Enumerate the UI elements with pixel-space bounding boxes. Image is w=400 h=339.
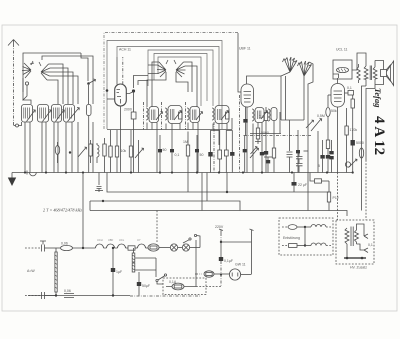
svg-text:2000: 2000 — [124, 108, 132, 112]
bus wire — [12, 172, 353, 174]
stage partition dash — [239, 95, 241, 173]
resistor R4 — [109, 130, 112, 173]
tone arrow P5 — [349, 159, 358, 168]
dash drop to HV box — [337, 173, 339, 221]
svg-text:4 A 12: 4 A 12 — [371, 116, 387, 155]
svg-text:UBF: UBF — [108, 238, 114, 242]
resistor R2 — [89, 140, 92, 163]
svg-text:50: 50 — [200, 153, 204, 157]
junction — [82, 247, 84, 249]
filter row 2 — [282, 243, 331, 247]
svg-text:5000: 5000 — [356, 141, 364, 145]
wire coil to gnd post — [23, 85, 31, 104]
AGC dash line — [244, 135, 312, 137]
drop x227 — [226, 173, 228, 194]
resistor R1 — [55, 142, 59, 163]
cap C20 — [296, 130, 300, 173]
drop from bus x83 — [82, 173, 84, 249]
drops from tuned row to bus — [25, 122, 93, 173]
grid stopper R13 — [326, 95, 337, 173]
screen box B3 — [333, 60, 352, 79]
cap C25 50uF — [137, 272, 150, 296]
mains prong 1 — [215, 225, 224, 233]
tuned circuit T1 — [22, 105, 36, 123]
vertical x113 — [111, 248, 122, 296]
svg-text:220V: 220V — [215, 225, 224, 229]
resistor R20 0,06 — [56, 242, 96, 251]
grid coupling cap — [318, 140, 325, 173]
dashed box Netz — [336, 220, 374, 264]
plate choke R16 — [357, 64, 360, 83]
AGC tap arrow with dot — [87, 79, 95, 104]
bottom bar — [344, 257, 366, 260]
svg-text:0,1: 0,1 — [347, 86, 352, 90]
IF3 drops — [188, 123, 198, 173]
resistor R18 P12 — [327, 181, 338, 211]
svg-text:5: 5 — [318, 164, 320, 168]
pot drop wire — [317, 131, 319, 173]
tube UBF11 V2 — [238, 33, 281, 173]
IF transformer IF4 — [212, 106, 229, 124]
svg-text:Entstörung: Entstörung — [283, 236, 300, 240]
svg-text:5000: 5000 — [261, 131, 269, 135]
diode load cap — [243, 107, 247, 136]
cap C26 — [25, 292, 56, 299]
output transformer TR1 — [364, 61, 377, 87]
svg-text:Tefag: Tefag — [373, 88, 383, 108]
mains plug GW — [229, 263, 251, 281]
box ACH11 outer — [107, 41, 222, 130]
transformer TR2 — [345, 224, 364, 258]
resistor R7 — [183, 132, 190, 173]
dash vertical from y210 — [156, 211, 158, 244]
svg-text:GW 11: GW 11 — [235, 263, 246, 267]
svg-text:50µF: 50µF — [142, 284, 150, 288]
antenna A1 — [8, 40, 19, 126]
band switch fan S1b — [39, 62, 51, 80]
fan aux wire — [285, 76, 287, 120]
bottom rail — [28, 295, 130, 297]
cap C22 — [329, 140, 333, 173]
box ACH11 inner — [117, 47, 219, 106]
pot circle — [345, 162, 350, 167]
grid cap dot — [132, 89, 135, 92]
IF fan F2 — [298, 61, 314, 211]
antenna terminal circle — [16, 124, 19, 127]
dashed box Entstoerung — [279, 218, 333, 255]
crystal symbol X1 — [95, 173, 103, 193]
stepped wires from switch to tuned circuits — [42, 53, 93, 104]
svg-text:HV. Zusatz: HV. Zusatz — [350, 266, 367, 270]
cap C13 — [195, 135, 203, 173]
cap C12 — [170, 145, 179, 173]
svg-text:10k: 10k — [121, 149, 127, 153]
cathode resistor R14 — [351, 95, 354, 173]
oscillator box nest — [148, 50, 213, 106]
IF trimmer arrow — [306, 120, 314, 128]
mains prong 2 — [250, 229, 254, 233]
svg-text:2 T = 468/472/478 kHz: 2 T = 468/472/478 kHz — [43, 208, 82, 213]
cap C11 — [158, 135, 166, 173]
svg-text:0,5M: 0,5M — [317, 114, 325, 118]
cap C24 — [40, 241, 56, 252]
cap C10 2000 — [124, 91, 136, 173]
svg-text:UBF 11: UBF 11 — [239, 47, 251, 51]
trimmer arrow P2 — [135, 140, 144, 173]
svg-text:0,1A: 0,1A — [169, 280, 177, 284]
resistor R10 — [255, 128, 269, 144]
band switch fan S1a — [22, 61, 34, 78]
drop x202 — [201, 173, 203, 211]
tube ACH11 V1 — [107, 57, 134, 173]
drop x188 — [187, 173, 189, 193]
fuse F2 — [148, 244, 170, 251]
IF2 drops — [166, 124, 180, 146]
tuned circuit T2 — [38, 105, 52, 123]
box junction dot — [106, 89, 109, 92]
IF1 drops — [147, 123, 157, 173]
svg-text:0,06: 0,06 — [61, 242, 68, 246]
volume pot P4 — [311, 114, 325, 131]
gang dash links — [144, 102, 186, 130]
lamp LP1 — [170, 244, 182, 251]
IF link line — [107, 129, 232, 131]
bus inline cap — [27, 171, 36, 176]
line y192 — [107, 173, 329, 193]
cap C16 dark — [260, 148, 264, 173]
goalpost A — [208, 131, 221, 173]
heater chain coils — [96, 244, 149, 250]
cathode bypass cap — [351, 140, 364, 146]
svg-text:170k: 170k — [350, 128, 358, 132]
filter row 1 — [282, 225, 331, 230]
svg-text:50: 50 — [163, 148, 167, 152]
IF transformer IF3 — [187, 107, 203, 123]
goalpost B — [224, 131, 234, 173]
osc switch fan S2a — [157, 60, 168, 77]
filter center link — [304, 227, 306, 246]
svg-text:0,1: 0,1 — [368, 243, 373, 247]
dashed box fuse unit — [163, 278, 206, 295]
contact forks — [357, 234, 373, 253]
mains switch S3 — [183, 234, 200, 286]
svg-text:0,1: 0,1 — [259, 115, 264, 119]
det IF unit IF5 — [252, 108, 277, 123]
cap C23 22uF — [292, 173, 308, 193]
IF5 secondary link — [281, 119, 304, 121]
svg-text:1M: 1M — [183, 140, 188, 144]
resistor R5 — [115, 130, 118, 173]
coil Dr1 — [97, 143, 99, 163]
mains lead left — [25, 247, 40, 249]
svg-text:0,1: 0,1 — [175, 153, 180, 157]
IF transformer IF2 — [165, 106, 182, 124]
IF4 drops — [213, 118, 232, 145]
IF5 drops — [253, 112, 280, 148]
IF transformer IF1 — [146, 107, 163, 123]
det trimmer arrow — [251, 147, 258, 155]
det resistor R12 — [259, 107, 268, 173]
cathode parts C21 — [345, 86, 354, 95]
svg-text:P12: P12 — [333, 196, 339, 200]
transformer drops — [362, 85, 376, 211]
svg-text:22 µF: 22 µF — [298, 183, 307, 187]
dash drop to HV box right — [365, 160, 367, 220]
svg-text:0,06: 0,06 — [64, 289, 71, 293]
junction dots power — [112, 247, 114, 249]
det cap to bus — [287, 120, 293, 173]
cap C17 — [264, 157, 272, 173]
padder C5 — [87, 105, 92, 123]
cap C27 0,1 — [219, 257, 233, 287]
cap C15 — [243, 136, 247, 173]
dropper resistors R21 R22 — [132, 248, 156, 277]
resistor R11 — [272, 145, 275, 173]
drop x207 — [206, 173, 208, 202]
ground — [8, 173, 16, 187]
osc switch fan S2b — [174, 60, 186, 77]
junction dot — [69, 151, 71, 153]
plate line — [333, 53, 366, 78]
mains link wire — [220, 233, 252, 274]
resistor R3 — [103, 138, 106, 173]
rail label — [64, 289, 74, 298]
svg-text:A=W: A=W — [27, 269, 35, 273]
svg-text:0,1µF: 0,1µF — [224, 259, 233, 263]
junction on y201 — [102, 200, 104, 202]
tuned circuit T4 — [64, 105, 80, 123]
svg-text:1µF: 1µF — [116, 270, 122, 274]
resistor R6 — [129, 130, 132, 173]
osc wiring — [134, 62, 198, 107]
heater bumps labels — [97, 238, 141, 242]
antenna coil box L1 — [23, 53, 81, 100]
svg-text:UCH: UCH — [97, 238, 103, 242]
resistor R15 — [345, 108, 357, 173]
line y201 — [90, 201, 240, 211]
tube UCL11 V3 — [328, 78, 345, 173]
oval resistor on primary drop — [359, 148, 363, 158]
resistor R17 — [310, 173, 329, 184]
speaker LS — [375, 61, 394, 86]
trimmer arrow P1 — [78, 147, 87, 157]
fuse F3 — [166, 280, 221, 290]
switch S4 — [156, 274, 167, 284]
lamp LP2 — [182, 244, 200, 251]
svg-text:50k: 50k — [331, 109, 337, 113]
svg-text:UY: UY — [137, 238, 141, 242]
svg-text:UCL: UCL — [119, 238, 125, 242]
resistor R19 vertical — [55, 248, 57, 296]
coil tap circle — [25, 82, 28, 85]
fuse F4 — [195, 271, 230, 277]
gang dash — [213, 122, 215, 173]
tuned circuit T3 — [52, 105, 65, 123]
trimmer arrow P3 — [250, 134, 259, 173]
coupling caps C18 C19 — [296, 150, 308, 173]
IF fan F1 — [281, 57, 297, 120]
svg-text:UCL 11: UCL 11 — [336, 48, 348, 52]
line y210 — [90, 211, 347, 217]
svg-text:ACH 11: ACH 11 — [119, 48, 131, 52]
